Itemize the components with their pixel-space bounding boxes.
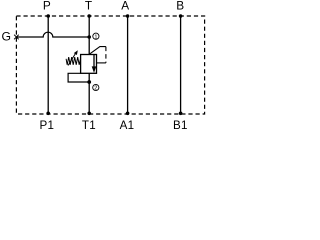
wire T line lower segment <box>88 73 90 113</box>
relief valve flow arrow <box>93 55 95 68</box>
wire T line upper segment <box>88 16 90 55</box>
svg-text:B: B <box>176 0 184 13</box>
pilot line diagonal from T <box>89 47 106 55</box>
pilot line dashed vertical <box>105 47 107 63</box>
drain wire from valve bottom to T <box>68 73 89 82</box>
plugged port X mark at G <box>14 35 19 40</box>
node A top <box>126 14 130 18</box>
wire P line <box>47 16 49 113</box>
svg-text:A1: A1 <box>120 119 135 132</box>
svg-text:P: P <box>43 0 51 13</box>
enclosure dashed boundary <box>16 16 204 114</box>
node B top <box>179 14 183 18</box>
node T / G junction <box>87 35 91 39</box>
svg-text:B1: B1 <box>173 119 188 132</box>
relief valve adjustable spring <box>66 57 81 65</box>
measuring point 1 <box>93 33 99 39</box>
relief valve V1 body <box>81 55 97 74</box>
svg-text:1: 1 <box>94 34 97 40</box>
wire A line <box>127 16 129 113</box>
pilot line to valve side <box>97 62 106 64</box>
node T top <box>87 14 91 18</box>
svg-text:T1: T1 <box>82 119 96 132</box>
wire B line <box>180 16 182 113</box>
measuring point 2 <box>93 84 99 90</box>
node T1 bottom <box>87 112 91 116</box>
node P top <box>46 14 50 18</box>
spring adjustment arrow <box>68 54 75 66</box>
svg-text:2: 2 <box>94 86 97 92</box>
node A1 bottom <box>126 112 130 116</box>
node B1 bottom <box>179 112 183 116</box>
wire G line with crossover hop at P <box>16 32 89 37</box>
svg-text:G: G <box>1 29 10 43</box>
node P1 bottom <box>46 112 50 116</box>
svg-text:T: T <box>85 0 92 13</box>
node T / drain junction <box>87 80 91 84</box>
svg-text:A: A <box>121 0 129 13</box>
svg-text:P1: P1 <box>40 119 55 132</box>
